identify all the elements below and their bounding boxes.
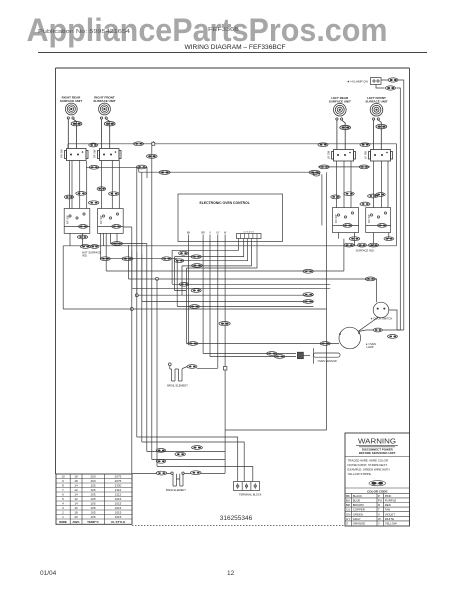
svg-text:1015: 1015 [115,511,122,515]
EOC pin V [209,232,211,242]
wire door switch to right [389,310,404,330]
wire bus y309 [63,308,326,310]
svg-text:2330: 2330 [115,484,122,488]
svg-text:105: 105 [90,488,95,492]
svg-text:VIOLET: VIOLET [385,512,396,516]
surface unit LF pins [373,118,380,120]
bottom wire bends left bundle [132,437,253,482]
wire tag oval y167 c [319,165,329,169]
infinite switch C body [333,208,359,233]
wire RF pins down [102,119,110,148]
svg-text:WHITE: WHITE [385,517,394,521]
wire tag oval below D [384,237,394,241]
electronic oven control box [178,194,283,242]
wire tag oval bottom c [156,459,166,463]
wire bus y258.7 [101,233,178,258]
svg-text:ORANGE: ORANGE [353,522,366,526]
wire RR pins down [68,119,76,148]
svg-text:BEFORE SERVICING UNIT.: BEFORE SERVICING UNIT. [359,451,396,455]
svg-text:WIRE: WIRE [59,520,67,524]
svg-text:TERMINAL BLOCK: TERMINAL BLOCK [239,493,262,497]
wire gauge table rows [56,479,132,520]
svg-text:BR: BR [201,232,205,235]
wire tag oval right of D top [376,193,386,197]
wire tag oval LR [340,125,351,129]
svg-text:BLACK: BLACK [353,494,363,498]
wire tag oval eoc d [179,282,189,286]
svg-text:2112: 2112 [115,488,122,492]
svg-text:Y: Y [378,522,380,526]
svg-text:RR SW: RR SW [60,149,64,158]
EOC pin BK [187,232,191,242]
wire bus y271 [106,233,344,271]
svg-text:P: P [378,494,380,498]
wire tag oval y295 [303,293,313,297]
wire tag oval eoc e [191,289,201,293]
wire tag oval y259 left [162,257,172,261]
svg-text:NOTED FIRST, STRIPE NEXT.: NOTED FIRST, STRIPE NEXT. [348,463,388,467]
wire deck1 to deck2 verticals right [322,161,388,225]
svg-text:ELECTRONIC OVEN CONTROL: ELECTRONIC OVEN CONTROL [200,201,250,205]
bake element [171,472,184,486]
svg-text:YELLOW STRIPE.: YELLOW STRIPE. [348,472,372,476]
wire tag oval left of A 1 [64,195,74,199]
wire tag oval eoc f [190,305,200,309]
svg-text:12: 12 [74,497,78,501]
svg-text:01/04: 01/04 [40,570,57,577]
wire top bus L1 [68,141,397,149]
wire hot surface ind bus y246.5 [63,144,396,309]
surface unit LF label [365,96,387,103]
wire tag oval y261 [174,259,184,263]
svg-text:AWG: AWG [72,520,80,524]
svg-text:2112: 2112 [115,493,122,497]
svg-text:V: V [378,512,380,516]
surface unit RR label [60,96,82,103]
switch S4 LF body [369,150,393,162]
svg-text:GY: GY [216,232,220,235]
svg-text:SURFACE UNIT: SURFACE UNIT [329,100,351,104]
broil element comb [170,366,218,381]
wire tag oval y271 [303,269,313,273]
surface unit RF pins [100,117,107,119]
wire bus y288 [132,250,330,288]
wire tag ovals hot surface left pair [80,245,90,249]
warning paragraph [348,459,390,477]
surface unit RR pins [67,117,74,119]
wire tag oval HI lamp 1 [388,78,398,82]
warning title underline [356,445,398,447]
svg-text:BU: BU [346,499,350,503]
surface unit RF coil [99,103,111,115]
svg-text:LF SW: LF SW [364,151,368,159]
node square on top bus [152,142,155,145]
junction node y295 [135,294,138,297]
svg-text:R: R [378,503,380,507]
wire tag oval HI lamp 2 [386,86,396,90]
wire LF pins down [374,120,382,149]
surface unit RF label [93,96,115,103]
svg-text:WIRING DIAGRAM – FEF336BCF: WIRING DIAGRAM – FEF336BCF [184,44,285,51]
wire tag oval inside A [78,225,87,229]
svg-text:2075: 2075 [115,479,122,483]
wire verticals from EOC bends down [172,250,330,343]
wire tag oval sensor a [267,352,277,356]
oven sensor connector [297,352,310,359]
svg-text:BK: BK [346,494,350,498]
wire bus y167 left segments [86,166,370,168]
door switch body [373,302,389,318]
wire tag oval x152 y156 [147,154,158,158]
svg-text:YELLOW: YELLOW [385,522,397,526]
wire tag oval x224 y323 [219,322,230,326]
svg-text:10: 10 [61,475,65,479]
svg-text:BROIL ELEMENT: BROIL ELEMENT [167,384,188,388]
svg-text:TEMP°C: TEMP°C [87,520,100,524]
EOC pin BR [201,232,205,242]
svg-text:14: 14 [74,502,78,506]
svg-text:1015: 1015 [115,502,122,506]
wire tag oval above B 1 [97,187,106,191]
svg-text:GRAY: GRAY [353,517,361,521]
svg-text:2075: 2075 [115,475,122,479]
junction node y279 [156,277,159,280]
infinite switch D body [366,208,391,233]
svg-text:LAMP: LAMP [367,345,374,349]
wire tag oval RF [104,122,115,126]
color code table text [346,494,397,526]
svg-text:INF SW: INF SW [368,214,371,223]
wires deck2 bottoms down [70,233,392,246]
switch S1 RR body [65,149,89,161]
svg-text:PU: PU [378,499,382,503]
svg-text:RED: RED [385,503,391,507]
broil element terminal [168,363,171,366]
junction node y309 [130,308,133,311]
svg-text:BROWN: BROWN [353,503,364,507]
svg-text:T: T [378,508,380,512]
svg-text:BK: BK [187,232,191,235]
wire tag oval row y245 right c [369,243,379,247]
svg-text:1015: 1015 [115,497,122,501]
wire tag oval lamp right low [388,335,398,339]
wire tag oval bake left [156,471,166,475]
wire bus y279 to door switch [129,245,377,302]
wire tag oval between A B top [89,201,99,205]
svg-text:105: 105 [90,515,95,519]
wire tag oval bus mid-left [134,142,144,146]
warning title [358,439,396,446]
main frame bottom dashed edge [132,525,345,527]
svg-text:COLOR CODE: COLOR CODE [367,489,387,493]
svg-text:WARNING: WARNING [358,439,396,446]
svg-text:18: 18 [74,475,78,479]
svg-text:W: W [378,517,381,521]
wire tag oval bus mid-right1 [318,143,328,147]
EOC pin GY [216,232,220,242]
wire tag oval below A [77,235,87,239]
wire tag oval y258 b [122,257,133,261]
warning divider [345,456,410,458]
wire tag oval above B 2 [109,192,119,196]
svg-text:400: 400 [90,479,95,483]
warning box frame [345,433,410,526]
wire tag oval bus left [89,143,98,147]
wire tag oval eoc c [192,264,203,268]
color code table lines [345,493,410,526]
wire tag oval bottom b [175,452,185,456]
infinite switch B body [98,209,124,234]
svg-text:105: 105 [90,506,95,510]
warning color code divider [345,487,410,489]
EOC pin OVEN [224,232,227,242]
surface unit LF coil [370,103,383,116]
node square broil to EOC [223,367,227,371]
warning subtitle [359,448,396,456]
wire tag oval hot surface pair b [90,245,99,249]
wire HI lamp to right bus [376,80,404,330]
wire tag oval y167 b [136,165,146,169]
oven lamp body [339,327,361,349]
svg-text:RF SW: RF SW [93,149,97,158]
svg-text:SURFACE UNIT: SURFACE UNIT [60,99,82,103]
warning example oval [369,481,386,486]
EOC connector block [237,232,262,242]
svg-text:20: 20 [74,515,78,519]
wire tag ovals above D [368,194,378,198]
svg-text:12: 12 [227,570,235,577]
svg-text:GN: GN [346,512,350,516]
wire lamp right to vertical [358,317,400,332]
svg-text:OVEN SENSOR: OVEN SENSOR [318,359,337,363]
wire tag oval lamp feed [188,342,198,346]
wire oven sensor feeds [203,354,296,357]
switch S2 RF body [98,149,122,161]
svg-text:★ HI LAMP ON: ★ HI LAMP ON [347,80,368,84]
svg-text:105: 105 [90,484,95,488]
wire tag oval row y245 right b [358,243,367,247]
svg-text:IND.: IND. [82,254,88,258]
svg-text:PINK: PINK [385,494,392,498]
wire tag oval y172 right [309,170,320,174]
svg-text:105: 105 [90,511,95,515]
wire gauge table header row [59,520,125,524]
wire tag oval left of A 2 [76,192,86,196]
label hot surface ind left [82,250,101,257]
svg-text:105: 105 [90,502,95,506]
switch S3 LR body [332,150,356,162]
wire tag oval inside D [377,224,386,228]
wire tag oval lamp right [373,328,382,332]
main frame left edge [55,68,57,474]
wire tag oval lamp feed right [320,342,330,346]
svg-text:GN-Y: GN-Y [374,481,381,485]
wire oval y174 right short [313,173,320,176]
svg-text:14: 14 [74,484,78,488]
svg-text:105: 105 [90,497,95,501]
wire bus y295 [137,252,314,295]
svg-text:18: 18 [74,511,78,515]
wire tag oval RR [71,122,82,126]
surface unit RR coil [65,103,77,115]
svg-text:1 2 3 4 5 6: 1 2 3 4 5 6 [243,232,254,234]
svg-text:BAKE ELEMENT: BAKE ELEMENT [166,488,186,492]
svg-text:18: 18 [74,479,78,483]
svg-text:316255346: 316255346 [220,515,253,522]
oven lamp label [366,342,377,349]
svg-text:12: 12 [74,488,78,492]
wire tag oval y301 [303,300,313,304]
svg-text:FEF336B: FEF336B [208,27,240,33]
svg-text:16: 16 [74,506,78,510]
terminal block body [234,482,260,491]
wire tag oval bottom a [156,449,166,453]
svg-text:CU: CU [346,508,350,512]
surface unit LR label [329,96,351,103]
wire tag oval LF [376,124,387,128]
wire tag oval below B [111,242,122,246]
wire tag oval between C D top [360,202,370,206]
svg-text:INF SW: INF SW [67,215,70,224]
svg-text:SURFACE IND.: SURFACE IND. [356,249,375,253]
wire vertical x326.5 down [225,208,326,430]
svg-text:UL STYLE: UL STYLE [111,520,125,524]
HI lamp indicator box [371,78,382,85]
svg-text:105: 105 [90,493,95,497]
wires EOC pins down [189,242,226,467]
wire tag oval y279 [365,277,375,281]
svg-text:200: 200 [90,475,95,479]
svg-text:TAN: TAN [385,508,391,512]
svg-text:1015: 1015 [115,515,122,519]
svg-text:1015: 1015 [115,506,122,510]
wire tag oval inside C [343,224,352,228]
wire tag oval left of C [331,195,341,199]
wire gauge table columns [70,474,104,524]
wire gauge table frame [56,474,132,524]
svg-text:INF SW: INF SW [335,214,338,223]
wire tag oval y167 a [89,165,99,169]
svg-text:★ DOOR SWITCH: ★ DOOR SWITCH [371,317,393,321]
wire tag oval bake right [191,471,201,475]
svg-text:EXAMPLE: GREEN WIRE WITH: EXAMPLE: GREEN WIRE WITH [348,468,390,472]
wire tag oval bottom d [192,446,203,450]
svg-text:LR SW: LR SW [327,150,331,159]
wire tag ovals row y245 right [344,243,354,247]
wire tag oval eoc b [191,255,201,259]
wire deck1 to deck2 verticals left [70,161,147,209]
infinite switch A body [64,209,90,234]
wire tag oval sensor b [274,355,284,359]
svg-text:BLUE: BLUE [353,499,361,503]
svg-text:BR: BR [346,503,350,507]
svg-text:SURFACE UNIT: SURFACE UNIT [365,100,387,104]
wire tag oval bus mid-right2 [360,143,370,147]
wire tag oval y172 left [159,170,170,174]
svg-text:GY: GY [346,517,350,521]
wire tag oval below C [349,237,359,241]
wire bus y172 [139,171,320,173]
wire verticals bundle down [123,144,157,474]
oven sensor probe [314,348,341,363]
svg-text:PURPLE: PURPLE [385,499,397,503]
wires EOC connector down to left bends [172,242,257,269]
wire tag oval y167 d [359,165,369,169]
svg-text:GREEN: GREEN [353,512,363,516]
wire LR pins down [337,120,345,149]
svg-text:INF SW: INF SW [100,215,103,224]
wire gauge table data [61,475,121,520]
surface unit LR pins [336,118,343,120]
main frame top edge [56,67,410,69]
wire tag oval y258 a [100,257,110,261]
svg-text:SURFACE UNIT: SURFACE UNIT [93,99,115,103]
main frame right edge [409,68,411,433]
svg-text:14: 14 [74,493,78,497]
wire bus y301.5 [142,254,314,302]
surface unit LR coil [334,103,347,116]
wire lamp feed from left [187,343,340,345]
title underline [38,52,427,54]
wire tag oval broil [187,365,197,369]
wire tag oval eoc a [179,251,189,255]
wire tag ovals above C [344,192,354,196]
svg-text:TRACED WIRE: WIRE COLOR: TRACED WIRE: WIRE COLOR [348,459,388,463]
svg-text:COPPER: COPPER [353,508,365,512]
wire tag oval inside B [112,225,121,229]
svg-text:Publication No: 5995421654: Publication No: 5995421654 [38,29,130,35]
